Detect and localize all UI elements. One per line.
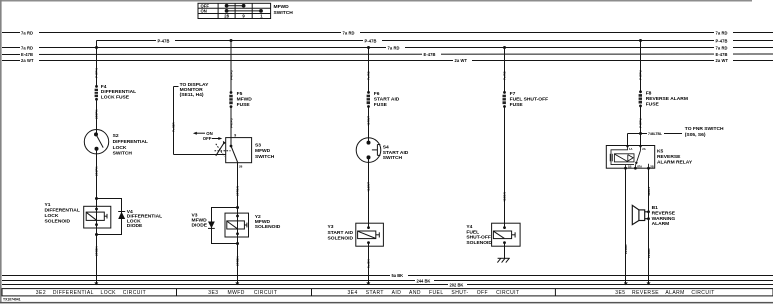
net label 7a RD second left: [20, 45, 39, 50]
svg-text:P-47B: P-47B: [365, 38, 377, 43]
svg-text:7a RD: 7a RD: [343, 31, 355, 36]
svg-text:SOLENOID: SOLENOID: [328, 236, 354, 242]
wire relay pin 2B to alarm B1: [648, 168, 650, 282]
svg-text:7x4BR: 7x4BR: [172, 122, 176, 132]
net label P-47B mid2: [363, 38, 382, 43]
wire display monitor drop: [173, 87, 175, 155]
svg-text:417WT: 417WT: [367, 116, 371, 126]
svg-text:F7: F7: [510, 91, 516, 97]
svg-text:REVERSE ALARM: REVERSE ALARM: [646, 96, 688, 102]
svg-text:FUSE: FUSE: [237, 102, 251, 108]
wire switch S4 to solenoid Y3: [368, 157, 370, 227]
label Y2 MFWD SOLENOID: [255, 214, 281, 230]
svg-text:2B: 2B: [650, 165, 653, 169]
arrow into 3E5 banner (right): [647, 282, 651, 285]
net label 244 BK: [415, 279, 434, 284]
node junction on 7a RD bus: [367, 46, 370, 49]
svg-text:WARNING: WARNING: [652, 216, 676, 222]
wire display monitor into switch S3: [174, 154, 226, 156]
page bottom border: [0, 302, 773, 304]
svg-text:DIODE: DIODE: [192, 222, 208, 228]
switch S4: [356, 138, 381, 163]
MFWD switch table caption: [274, 4, 294, 16]
svg-text:F5: F5: [237, 91, 243, 97]
svg-text:Y4: Y4: [466, 224, 472, 230]
svg-text:9: 9: [234, 133, 236, 137]
svg-text:746LTBL: 746LTBL: [648, 132, 662, 136]
svg-text:E-47B: E-47B: [21, 52, 33, 57]
wire switch S3 to solenoid Y2: [237, 163, 239, 208]
svg-text:MFWD: MFWD: [274, 4, 290, 10]
label V4 DIFFERENTIAL LOCK DIODE: [127, 209, 162, 229]
svg-text:2a WT: 2a WT: [21, 58, 34, 63]
svg-text:202 BK: 202 BK: [450, 283, 464, 288]
switch S3 actuation arrow OFF: [203, 136, 222, 141]
node FNR junction: [639, 132, 642, 135]
svg-text:DIFFERENTIAL: DIFFERENTIAL: [45, 208, 80, 214]
svg-text:SOLENOID: SOLENOID: [255, 224, 281, 230]
label K5 REVERSE ALARM RELAY: [657, 148, 693, 165]
svg-text:2A: 2A: [642, 147, 645, 151]
label Y1 DIFFERENTIAL LOCK SOLENOID: [45, 202, 80, 224]
alarm B1 speaker: [632, 205, 650, 224]
switch S3 pole contact: [230, 138, 238, 163]
svg-text:REVERSE: REVERSE: [652, 211, 676, 217]
arrow into 3E2 banner: [94, 282, 98, 285]
svg-text:7a RD: 7a RD: [21, 31, 33, 36]
svg-text:REVERSE: REVERSE: [657, 154, 681, 160]
page left border: [0, 0, 2, 302]
svg-text:P47PU: P47PU: [639, 69, 643, 80]
wire diode branch loop: [212, 208, 238, 244]
svg-text:SWITCH: SWITCH: [113, 151, 133, 157]
fuse F4: [94, 85, 98, 101]
svg-text:3E5 REVERSE ALARM CIRCUIT: 3E5 REVERSE ALARM CIRCUIT: [615, 290, 715, 296]
banner divider 3: [554, 289, 556, 296]
svg-text:1A: 1A: [629, 147, 632, 151]
svg-text:(SE11, H4): (SE11, H4): [180, 92, 204, 98]
node relay bottom pin 87A: [634, 167, 637, 170]
svg-text:Y1: Y1: [45, 202, 51, 208]
svg-text:2a WT: 2a WT: [716, 58, 729, 63]
svg-text:SWITCH: SWITCH: [274, 10, 294, 16]
svg-text:START AID: START AID: [383, 150, 409, 156]
svg-text:3E3 MWFD CIRCUIT: 3E3 MWFD CIRCUIT: [208, 290, 277, 296]
svg-text:P47PK: P47PK: [95, 67, 99, 78]
svg-text:7a RD: 7a RD: [21, 45, 33, 50]
net label 7a RD right: [714, 31, 733, 36]
svg-text:SWITCH: SWITCH: [255, 154, 275, 160]
svg-text:DIFFERENTIAL: DIFFERENTIAL: [113, 139, 148, 145]
switch S3 actuation arrow ON: [193, 131, 213, 136]
wire fuse F5 to switch S3: [230, 107, 232, 138]
svg-text:1B: 1B: [628, 165, 631, 169]
svg-text:244 BK: 244 BK: [417, 279, 431, 284]
switch S2: [84, 130, 108, 154]
svg-text:5a BK: 5a BK: [392, 273, 404, 278]
wire fuse F7 to solenoid Y4: [504, 107, 506, 228]
svg-text:F6: F6: [374, 91, 380, 97]
label Y3 START AID SOLENOID: [328, 224, 354, 242]
svg-text:P47PU: P47PU: [229, 117, 233, 128]
label F5 MFWD FUSE: [237, 91, 253, 108]
svg-text:ON: ON: [206, 131, 212, 136]
svg-text:S2: S2: [113, 133, 119, 139]
net label P-47B right: [714, 38, 733, 43]
svg-text:2a WT: 2a WT: [455, 58, 468, 63]
svg-text:LOCK FUSE: LOCK FUSE: [101, 94, 130, 100]
wire solenoid Y4 to ground: [504, 243, 506, 259]
label S2 DIFFERENTIAL LOCK SWITCH: [113, 133, 148, 156]
svg-text:ALARM RELAY: ALARM RELAY: [657, 160, 693, 166]
wire through solenoid Y2: [237, 208, 239, 244]
net label 2a WT mid: [453, 58, 472, 63]
svg-text:(S05, S6): (S05, S6): [685, 132, 706, 138]
svg-text:P-47B: P-47B: [158, 38, 170, 43]
net label 5a BK: [390, 273, 408, 278]
svg-text:SOLENOID: SOLENOID: [466, 240, 492, 246]
wire stub to display monitor: [174, 86, 179, 88]
arrow into 3E4 banner: [366, 282, 370, 285]
svg-text:87A: 87A: [637, 165, 642, 169]
svg-text:2x1BK: 2x1BK: [647, 248, 651, 258]
svg-text:B1: B1: [652, 205, 659, 211]
label B1 REVERSE WARNING ALARM: [652, 205, 676, 227]
svg-text:DIODE: DIODE: [127, 223, 143, 229]
label TO DISPLAY MONITOR (SE11, H4): [180, 82, 210, 98]
net label 7a RD left: [20, 31, 39, 36]
banner divider 2: [311, 289, 313, 296]
wire relay pin 1B to ground bus: [625, 168, 627, 282]
svg-text:OFF: OFF: [203, 136, 212, 141]
node loop bottom junction: [236, 242, 239, 245]
MFWD switch contact table: [198, 3, 271, 18]
net label P-47B mid1: [156, 38, 175, 43]
node relay bottom pin 2B: [647, 167, 650, 170]
wire label 746LTBL: [647, 131, 664, 136]
svg-text:TO DISPLAY: TO DISPLAY: [180, 82, 210, 88]
net label 7a RD mid: [341, 31, 360, 36]
svg-text:3E2 DIFFERENTIAL LOCK CIRCUIT: 3E2 DIFFERENTIAL LOCK CIRCUIT: [36, 290, 146, 296]
svg-text:ON: ON: [201, 9, 207, 14]
svg-text:START AID: START AID: [328, 230, 354, 236]
wire down to fuse F6: [368, 48, 370, 93]
wire through solenoid Y1: [96, 199, 98, 235]
node relay bottom pin 1B: [624, 167, 627, 170]
wire fuse F8 to junction: [640, 106, 642, 134]
wire fuse F4 to switch S2: [96, 99, 98, 134]
svg-text:416WT: 416WT: [367, 182, 371, 192]
svg-text:201PK: 201PK: [95, 166, 99, 176]
svg-text:SOLENOID: SOLENOID: [45, 218, 71, 224]
banner divider 1: [176, 289, 178, 296]
svg-text:7a RD: 7a RD: [716, 45, 728, 50]
svg-text:200BK: 200BK: [95, 246, 99, 256]
wire down to fuse F5: [230, 41, 232, 93]
wire solenoid Y1 to ground bus: [96, 234, 98, 283]
svg-text:419GN: 419GN: [503, 191, 507, 202]
svg-text:F8: F8: [646, 91, 652, 97]
node loop top junction: [236, 206, 239, 209]
wire down to fuse F4: [96, 48, 98, 87]
wire fuse F6 to switch S4: [368, 107, 370, 143]
banner box: [2, 289, 773, 296]
svg-text:K5: K5: [657, 148, 664, 154]
wire bus P-47B: [97, 40, 773, 42]
svg-text:S4: S4: [383, 144, 389, 150]
svg-text:FUEL SHUT-OFF: FUEL SHUT-OFF: [510, 96, 549, 102]
net label 202 BK: [448, 283, 467, 288]
wire ground bus 5a BK: [2, 275, 773, 277]
svg-text:7a RD: 7a RD: [388, 45, 400, 50]
node loop top junction: [95, 197, 98, 200]
wire P-47B corner to vertical drop: [96, 41, 98, 48]
wire switch S2 to solenoid Y1: [96, 149, 98, 199]
wire branch down to relay coil pin: [627, 134, 629, 146]
diode V4: [118, 212, 125, 220]
net label 7a RD second mid: [386, 45, 405, 50]
svg-text:MFWD: MFWD: [255, 148, 271, 154]
arrow into 3E3 banner: [235, 282, 239, 285]
net label E-47B mid: [422, 52, 441, 57]
svg-text:E-47B: E-47B: [424, 52, 436, 57]
svg-text:28: 28: [224, 14, 229, 19]
label F6 START AID FUSE: [374, 91, 400, 108]
node relay top pin 2A: [639, 145, 641, 147]
diode V3: [208, 222, 215, 229]
svg-text:200BK: 200BK: [236, 256, 240, 266]
wire bus 2a WT: [2, 60, 773, 62]
svg-text:ALARM: ALARM: [652, 221, 670, 227]
svg-text:SHUT-OFF: SHUT-OFF: [466, 235, 490, 241]
label F4 DIFFERENTIAL LOCK FUSE: [101, 84, 136, 100]
svg-text:SWITCH: SWITCH: [383, 155, 403, 161]
net label E-47B left: [20, 52, 39, 57]
solenoid Y2: [225, 213, 249, 237]
svg-text:FUSE: FUSE: [374, 102, 388, 108]
fuse F6: [366, 91, 370, 108]
label S3 MFWD SWITCH: [255, 142, 275, 160]
svg-text:LOCK: LOCK: [113, 145, 127, 151]
label F7 FUEL SHUT-OFF FUSE: [510, 91, 549, 108]
node loop bottom junction: [95, 233, 98, 236]
label V3 MFWD DIODE: [192, 212, 208, 228]
svg-text:START AID: START AID: [374, 96, 400, 102]
label TO FNR SWITCH (S05, S6): [685, 126, 724, 138]
label S4 START AID SWITCH: [383, 144, 409, 161]
relay K5 box: [606, 146, 654, 169]
wire bus E-47B: [2, 53, 773, 56]
wire main down to relay contact pin: [640, 134, 642, 146]
solenoid Y4: [492, 223, 520, 246]
wire down to fuse F7: [504, 48, 506, 93]
svg-text:Y3: Y3: [328, 224, 334, 230]
node junction on P-47B bus: [230, 39, 233, 42]
switch S3 second pole: [216, 141, 226, 157]
svg-text:1: 1: [260, 14, 263, 19]
wire diode branch loop: [97, 199, 122, 235]
svg-text:TO FNR SWITCH: TO FNR SWITCH: [685, 126, 724, 132]
wire down to fuse F8: [640, 41, 642, 92]
wire ground bus 244 BK: [2, 280, 773, 282]
svg-text:P47PU: P47PU: [639, 117, 643, 128]
net label 7a RD second right: [714, 45, 733, 50]
solenoid Y1: [84, 206, 111, 228]
switch S3 gang link dashed: [215, 150, 231, 152]
svg-text:MONITOR: MONITOR: [180, 87, 203, 93]
wire bus 7a RD (top): [2, 32, 773, 34]
svg-text:3E4 START AID AND FUEL SHUT- O: 3E4 START AID AND FUEL SHUT- OFF CIRCUIT: [347, 290, 519, 296]
solenoid Y3: [356, 223, 384, 246]
svg-text:S3: S3: [255, 142, 261, 148]
net label E-47B right: [714, 52, 733, 57]
wire bus 7a RD (second): [2, 47, 773, 49]
svg-text:5a BK: 5a BK: [367, 258, 371, 268]
label Y4 FUEL SHUT-OFF SOLENOID: [466, 224, 492, 246]
node junction on 7a RD bus: [503, 46, 506, 49]
arrow into 3E5 banner (left): [624, 282, 628, 285]
svg-text:FUSE: FUSE: [646, 101, 660, 107]
svg-text:307GN: 307GN: [236, 185, 240, 196]
wire to FNR switch: [628, 133, 683, 135]
svg-text:LOCK: LOCK: [45, 213, 59, 219]
svg-text:7a RD: 7a RD: [716, 31, 728, 36]
svg-text:MFWD: MFWD: [237, 96, 253, 102]
page top border: [0, 0, 752, 2]
svg-text:7a RD: 7a RD: [503, 70, 507, 80]
node junction on P-47B bus: [639, 39, 642, 42]
svg-text:P47PU: P47PU: [229, 69, 233, 80]
svg-text:FUSE: FUSE: [510, 102, 524, 108]
net label 2a WT right: [714, 58, 733, 63]
node relay top pin 1A: [626, 145, 628, 147]
svg-text:E-47B: E-47B: [716, 52, 728, 57]
svg-text:7a RD: 7a RD: [367, 70, 371, 80]
svg-text:9: 9: [242, 14, 245, 19]
wire ground bus 202 BK: [2, 284, 773, 286]
svg-text:FUEL: FUEL: [466, 229, 479, 235]
switch S3 box: [226, 138, 252, 163]
net label 2a WT left: [20, 58, 39, 63]
fuse F5: [229, 91, 233, 108]
svg-text:TX1074041: TX1074041: [3, 298, 21, 302]
svg-text:209PK: 209PK: [95, 109, 99, 119]
node junction on 7a RD bus: [95, 46, 98, 49]
svg-text:28: 28: [239, 164, 243, 168]
svg-text:428GY: 428GY: [647, 185, 651, 196]
fuse F7: [502, 91, 506, 108]
svg-text:DIFFERENTIAL: DIFFERENTIAL: [101, 89, 136, 95]
fuse F8: [638, 90, 642, 107]
label F8 REVERSE ALARM FUSE: [646, 91, 688, 108]
wire solenoid Y2 to ground bus: [237, 244, 239, 283]
wire solenoid Y3 to ground bus: [368, 243, 370, 283]
svg-text:2x1BK: 2x1BK: [624, 244, 628, 254]
svg-text:P-47B: P-47B: [716, 38, 728, 43]
ground chassis symbol: [497, 258, 509, 262]
relay K5 coil: [610, 146, 634, 169]
relay K5 contact: [635, 146, 648, 169]
